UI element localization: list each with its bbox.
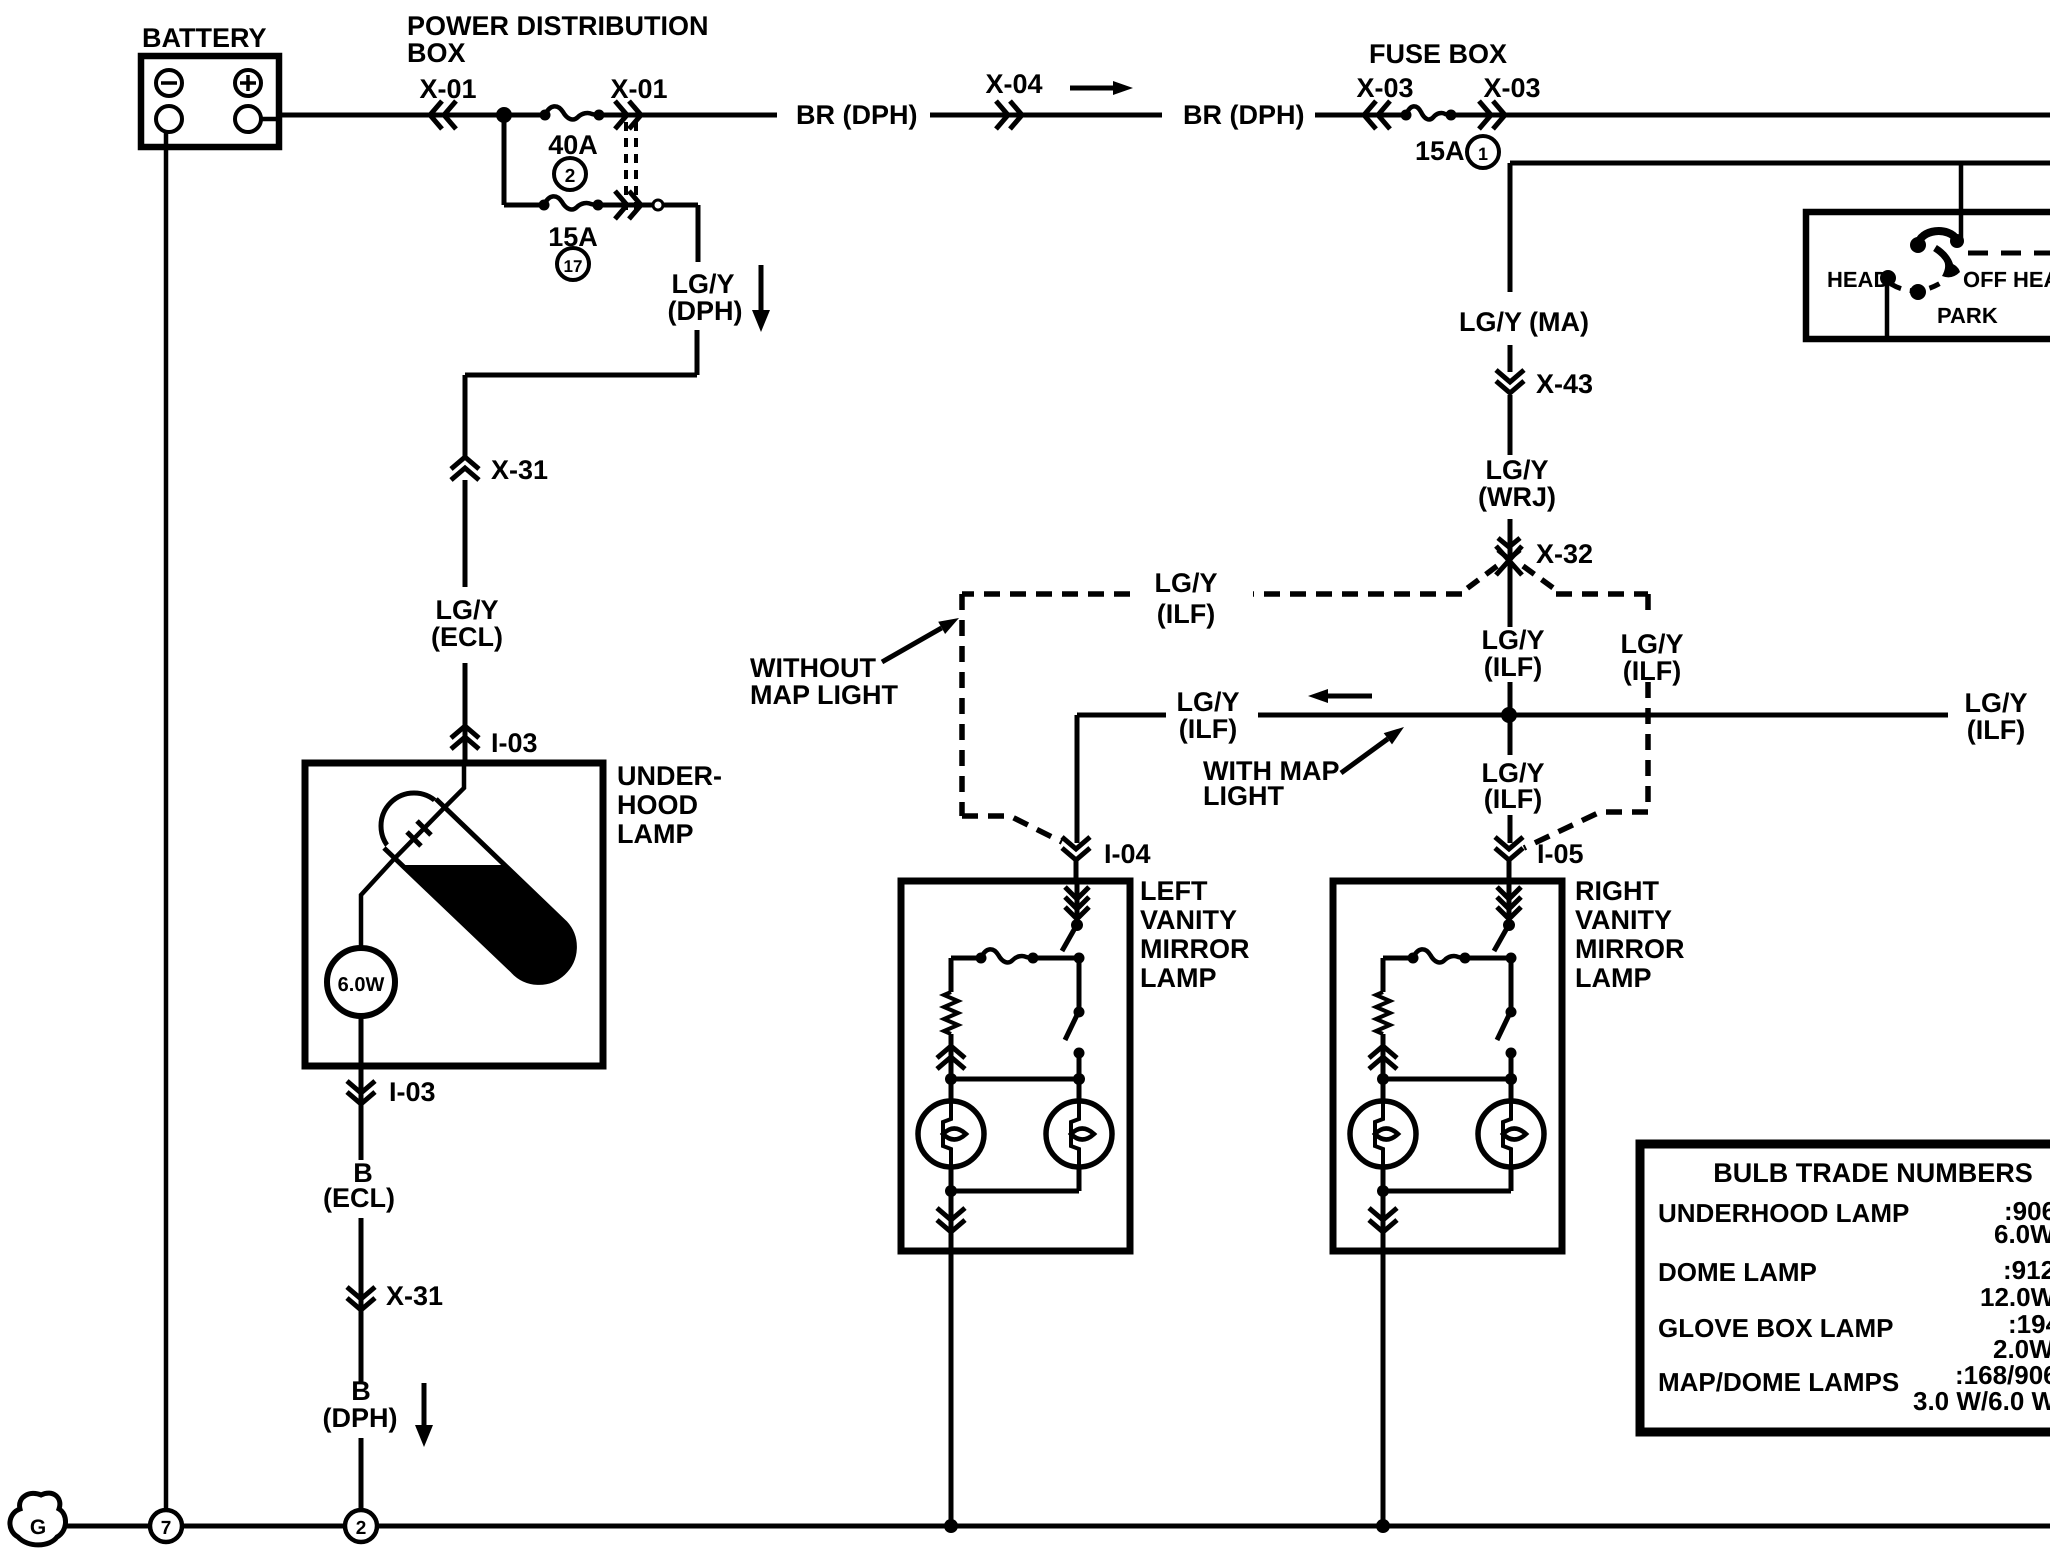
svg-text:12.0W: 12.0W: [1980, 1282, 2050, 1312]
svg-text:I-05: I-05: [1537, 839, 1584, 869]
svg-text:I-04: I-04: [1104, 839, 1151, 869]
svg-text:6.0W: 6.0W: [1994, 1219, 2050, 1249]
svg-text:X-43: X-43: [1536, 369, 1593, 399]
svg-text:(ILF): (ILF): [1157, 599, 1215, 629]
svg-text:(WRJ): (WRJ): [1478, 482, 1556, 512]
svg-text:BULB TRADE NUMBERS: BULB TRADE NUMBERS: [1713, 1158, 2033, 1188]
svg-text:LG/Y: LG/Y: [671, 269, 734, 299]
svg-text:VANITY: VANITY: [1140, 905, 1237, 935]
svg-text:LAMP: LAMP: [1575, 963, 1652, 993]
svg-text:(DPH): (DPH): [323, 1403, 398, 1433]
svg-text:G: G: [30, 1516, 46, 1539]
svg-text:17: 17: [564, 257, 583, 276]
svg-text:WITHOUT: WITHOUT: [750, 653, 876, 683]
svg-text:LG/Y: LG/Y: [435, 595, 498, 625]
svg-text:(ECL): (ECL): [323, 1183, 395, 1213]
svg-text:3.0 W/6.0 W: 3.0 W/6.0 W: [1913, 1386, 2050, 1416]
svg-text:I-03: I-03: [389, 1077, 436, 1107]
svg-text:DOME LAMP: DOME LAMP: [1658, 1257, 1817, 1287]
svg-text:X-03: X-03: [1483, 73, 1540, 103]
svg-text:FUSE BOX: FUSE BOX: [1369, 39, 1507, 69]
svg-text:LG/Y (MA): LG/Y (MA): [1459, 307, 1589, 337]
svg-text::912: :912: [2003, 1255, 2050, 1285]
svg-text:6.0W: 6.0W: [338, 974, 385, 996]
svg-text:(ECL): (ECL): [431, 622, 503, 652]
svg-text:RIGHT: RIGHT: [1575, 876, 1660, 906]
svg-text:(DPH): (DPH): [668, 296, 743, 326]
svg-text:LG/Y: LG/Y: [1481, 625, 1544, 655]
svg-text:GLOVE BOX LAMP: GLOVE BOX LAMP: [1658, 1313, 1893, 1343]
svg-text:LIGHT: LIGHT: [1203, 781, 1284, 811]
svg-text:LAMP: LAMP: [617, 819, 694, 849]
svg-text:(ILF): (ILF): [1179, 714, 1237, 744]
svg-text:MAP LIGHT: MAP LIGHT: [750, 680, 899, 710]
svg-text:LG/Y: LG/Y: [1154, 568, 1217, 598]
svg-text:UNDER-: UNDER-: [617, 761, 722, 791]
svg-text:I-03: I-03: [491, 728, 538, 758]
svg-text:LG/Y: LG/Y: [1964, 688, 2027, 718]
svg-text:UNDERHOOD LAMP: UNDERHOOD LAMP: [1658, 1198, 1909, 1228]
svg-text:7: 7: [161, 1518, 172, 1539]
svg-text:2: 2: [565, 166, 576, 187]
svg-text:VANITY: VANITY: [1575, 905, 1672, 935]
svg-text:LAMP: LAMP: [1140, 963, 1217, 993]
svg-text:LG/Y: LG/Y: [1620, 629, 1683, 659]
svg-text:(ILF): (ILF): [1484, 784, 1542, 814]
svg-text:X-03: X-03: [1356, 73, 1413, 103]
svg-text:(ILF): (ILF): [1967, 715, 2025, 745]
svg-text:X-04: X-04: [985, 69, 1042, 99]
svg-text:OFF: OFF: [1963, 267, 2007, 292]
svg-text:BR (DPH): BR (DPH): [796, 100, 918, 130]
svg-text:MIRROR: MIRROR: [1140, 934, 1250, 964]
svg-text:X-01: X-01: [419, 74, 476, 104]
svg-text:X-31: X-31: [386, 1281, 443, 1311]
svg-text:B: B: [351, 1376, 371, 1406]
svg-text:BATTERY: BATTERY: [142, 23, 267, 53]
svg-text:PARK: PARK: [1937, 303, 1998, 328]
svg-text:HOOD: HOOD: [617, 790, 698, 820]
svg-text:X-31: X-31: [491, 455, 548, 485]
svg-text:MIRROR: MIRROR: [1575, 934, 1685, 964]
svg-text:LG/Y: LG/Y: [1485, 455, 1548, 485]
svg-text:LEFT: LEFT: [1140, 876, 1208, 906]
svg-text:MAP/DOME LAMPS: MAP/DOME LAMPS: [1658, 1367, 1899, 1397]
svg-text:40A: 40A: [548, 130, 598, 160]
svg-text:HEAD: HEAD: [2013, 267, 2050, 292]
svg-text:BOX: BOX: [407, 38, 466, 68]
svg-text:2: 2: [356, 1518, 367, 1539]
svg-text:LG/Y: LG/Y: [1176, 687, 1239, 717]
svg-text:15A: 15A: [1415, 136, 1465, 166]
svg-text:X-01: X-01: [610, 74, 667, 104]
svg-text:HEAD: HEAD: [1827, 267, 1889, 292]
svg-text:POWER DISTRIBUTION: POWER DISTRIBUTION: [407, 11, 709, 41]
svg-text:(ILF): (ILF): [1623, 656, 1681, 686]
svg-text:X-32: X-32: [1536, 539, 1593, 569]
svg-text:1: 1: [1478, 144, 1488, 164]
svg-text:BR (DPH): BR (DPH): [1183, 100, 1305, 130]
svg-text:(ILF): (ILF): [1484, 652, 1542, 682]
